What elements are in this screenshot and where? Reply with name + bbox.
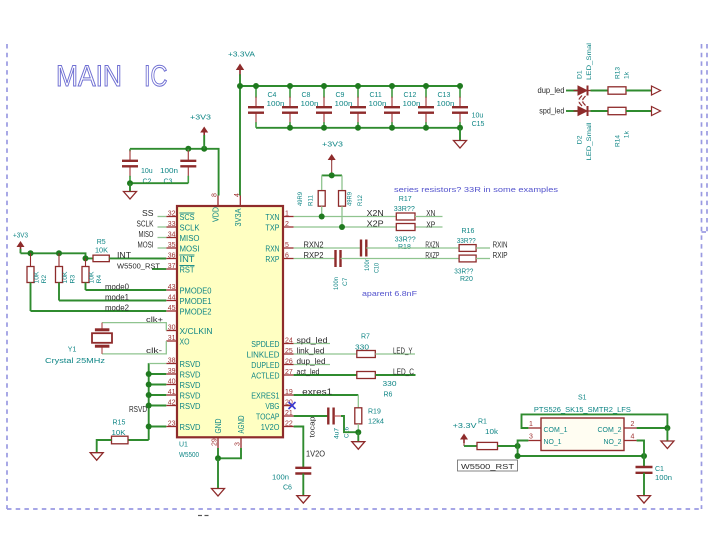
junction RSVD — [146, 371, 152, 377]
svg-text:R19: R19 — [368, 408, 381, 415]
svg-text:100n: 100n — [655, 475, 672, 482]
svg-text:10K: 10K — [62, 271, 69, 283]
pin 8 VDD (top) — [212, 193, 221, 222]
svg-text:RXZP: RXZP — [425, 251, 439, 260]
svg-text:GND: GND — [214, 418, 223, 433]
wire MOSI stub — [158, 247, 167, 249]
junction R3 top — [56, 250, 62, 256]
title text MAIN IC — [56, 60, 168, 93]
svg-text:35: 35 — [168, 242, 176, 249]
svg-text:6: 6 — [285, 253, 289, 260]
wire RSVD pin23 — [149, 426, 167, 428]
wire TXN row — [294, 216, 397, 218]
junction bottom rail C15 — [457, 125, 463, 131]
junction top rail C13 — [423, 83, 429, 89]
svg-text:Y1: Y1 — [68, 347, 77, 354]
svg-text:MISO: MISO — [139, 230, 154, 239]
svg-text:EXRES1: EXRES1 — [251, 391, 280, 400]
net label exres1 — [302, 387, 333, 396]
ground C2 C3 — [124, 192, 137, 200]
pin 42 RSVD — [166, 400, 200, 411]
pin 37 RST — [166, 263, 194, 274]
svg-text:IC: IC — [144, 60, 168, 93]
svg-text:ACTLED: ACTLED — [251, 371, 279, 380]
wire C1 to ground — [643, 473, 645, 496]
wire gnd stem — [357, 432, 359, 442]
resistor R5 10K — [93, 239, 109, 262]
net label W5500_RST (boxed) — [458, 460, 518, 471]
svg-text:1k: 1k — [624, 130, 631, 138]
resistor R12 49R9 — [339, 175, 365, 227]
pin 26 DUPLED — [251, 359, 293, 370]
wire COM_2 — [637, 427, 668, 429]
wire XP — [415, 226, 443, 228]
junction bottom rail C12 — [389, 125, 395, 131]
svg-text:4u7: 4u7 — [334, 428, 341, 439]
wire GND AGND — [218, 448, 241, 458]
wire SCLK stub — [158, 226, 167, 228]
junction RSVD — [146, 403, 152, 409]
net label LED_C — [393, 367, 414, 376]
wire RXIN — [476, 247, 490, 249]
svg-text:C7: C7 — [342, 277, 349, 286]
net label RXZN — [425, 240, 439, 249]
svg-text:X/CLKIN: X/CLKIN — [180, 327, 213, 336]
svg-text:RSVD: RSVD — [129, 405, 147, 414]
wire C6 to ground — [302, 474, 304, 496]
pin 3 NO_1 — [528, 434, 561, 446]
svg-text:PTS526_SK15_SMTR2_LFS: PTS526_SK15_SMTR2_LFS — [534, 407, 631, 414]
pin 22 1V2O — [261, 421, 294, 432]
svg-text:S1: S1 — [578, 395, 587, 402]
svg-text:4: 4 — [631, 434, 635, 441]
pin 40 RSVD — [166, 379, 200, 390]
svg-text:R1: R1 — [478, 418, 487, 425]
pin 41 RSVD — [166, 389, 200, 400]
resistor R6 330 — [357, 372, 397, 399]
net label X2N — [367, 209, 384, 218]
svg-text:RXIP: RXIP — [493, 251, 508, 260]
svg-text:DUPLED: DUPLED — [251, 361, 279, 370]
capacitor C16 4u7 — [328, 408, 350, 440]
junction RSVD — [146, 392, 152, 398]
svg-text:1: 1 — [285, 211, 289, 218]
wire LED_Y — [375, 353, 415, 355]
svg-text:22: 22 — [285, 421, 293, 428]
pin 39 RSVD — [166, 368, 200, 379]
svg-text:COM_1: COM_1 — [544, 425, 568, 434]
svg-text:100n: 100n — [160, 168, 178, 175]
svg-text:3V3A: 3V3A — [234, 208, 243, 227]
wire RXP2 row — [294, 258, 336, 260]
wire C15 to ground — [459, 128, 461, 141]
resistor R7 330 — [355, 334, 375, 358]
capacitor C4 — [248, 86, 285, 128]
svg-text:VDD: VDD — [212, 207, 221, 222]
pin 1 COM_1 — [528, 421, 567, 434]
svg-text:10u: 10u — [141, 168, 153, 175]
svg-text:W5500_RST: W5500_RST — [117, 261, 160, 270]
capacitor C3 — [160, 149, 196, 186]
net label XP — [426, 220, 435, 229]
svg-text:R5: R5 — [97, 239, 106, 246]
svg-text:37: 37 — [168, 263, 176, 270]
net label RXZP — [425, 251, 439, 260]
wire +3V3 rail — [21, 253, 94, 258]
svg-text:C2: C2 — [143, 178, 152, 185]
junction COM gnd — [664, 425, 670, 431]
capacitor C13 — [418, 86, 455, 128]
pin 33 SCLK — [166, 221, 200, 232]
wire LED_C — [375, 374, 415, 376]
pin 34 MISO — [166, 232, 199, 243]
svg-text:45: 45 — [168, 305, 176, 312]
pin 29 GND (bottom) — [212, 418, 224, 448]
svg-text:mode1: mode1 — [105, 293, 130, 302]
svg-text:SPDLED: SPDLED — [251, 340, 279, 349]
resistor R19 12k4 — [355, 408, 384, 432]
svg-text:LINKLED: LINKLED — [247, 350, 280, 359]
svg-text:RSVD: RSVD — [180, 423, 201, 432]
wire COM loop — [522, 414, 668, 428]
pin 1 TXN — [265, 211, 293, 222]
wire dup_led — [294, 364, 330, 366]
ground U1 — [212, 489, 225, 497]
junction top rail C15 — [457, 83, 463, 89]
svg-text:100n: 100n — [272, 474, 289, 481]
wire RXZN — [366, 247, 459, 249]
svg-text:MAIN: MAIN — [56, 60, 122, 93]
resistor R14 1k — [608, 107, 631, 147]
pin 38 RSVD — [166, 358, 200, 369]
wire SS stub — [158, 216, 167, 218]
net label MOSI — [138, 240, 154, 249]
junction TXP — [339, 224, 345, 230]
svg-text:LED_Smal: LED_Smal — [586, 42, 593, 80]
junction reset node — [515, 443, 521, 449]
svg-text:26: 26 — [285, 359, 293, 366]
svg-text:SS: SS — [142, 209, 154, 218]
svg-text:TXP: TXP — [265, 223, 279, 232]
wire R15 to ground — [97, 440, 112, 453]
net label mode1 — [105, 293, 130, 302]
svg-text:RST: RST — [180, 265, 195, 274]
junction R2 top — [28, 250, 34, 256]
svg-text:D2: D2 — [577, 135, 584, 144]
svg-text:SCS: SCS — [180, 213, 195, 222]
svg-text:100n: 100n — [333, 277, 340, 290]
svg-text:R7: R7 — [361, 334, 370, 341]
net label 1V2O — [306, 450, 325, 459]
svg-text:10u: 10u — [472, 113, 484, 120]
LED D2 LED_Small — [574, 101, 596, 160]
wire +3V3 stem — [203, 135, 205, 149]
note: series resistors comment — [394, 185, 558, 194]
LED D1 LED_Small — [574, 42, 596, 100]
crystal Y1 25MHz — [45, 323, 112, 365]
svg-text:8: 8 — [212, 193, 219, 197]
wire mode1 — [59, 300, 166, 302]
power +3.3VA — [228, 52, 255, 76]
svg-text:R6: R6 — [384, 392, 393, 399]
capacitor C6 100n — [272, 468, 311, 492]
pin 23 RSVD — [166, 421, 200, 432]
svg-text:33R??: 33R?? — [457, 238, 476, 245]
net label clk- — [146, 346, 163, 355]
wire 1V2O — [294, 427, 304, 468]
junction GND — [215, 455, 221, 461]
page mark — [198, 515, 209, 517]
junction RSVD — [146, 382, 152, 388]
wire spd_led to D2 — [566, 110, 578, 112]
svg-text:31: 31 — [168, 335, 176, 342]
svg-text:+3.3VA: +3.3VA — [228, 52, 255, 59]
capacitor C1 100n — [636, 466, 673, 482]
svg-text:19: 19 — [285, 389, 293, 396]
arrow dup out — [652, 86, 661, 95]
wire D1 to R13 — [591, 90, 609, 92]
IC U1 W5500 body — [177, 206, 283, 437]
svg-text:R13: R13 — [615, 67, 622, 79]
svg-text:C1: C1 — [655, 466, 664, 473]
ground cap bank — [454, 141, 467, 149]
pin 36 INT — [166, 253, 194, 264]
wire W5500_RST row — [518, 446, 644, 456]
junction pullup rail — [329, 172, 335, 178]
wire spd_led — [294, 343, 330, 345]
svg-text:INT: INT — [117, 251, 131, 260]
svg-text:aparent 6.8nF: aparent 6.8nF — [362, 289, 418, 298]
svg-text:+3.3V: +3.3V — [453, 423, 477, 430]
svg-text:PMODE2: PMODE2 — [180, 307, 213, 316]
ground C6 — [297, 496, 310, 504]
wire RXN2 row — [294, 247, 361, 249]
svg-text:43: 43 — [168, 284, 176, 291]
wire exres1 — [294, 394, 359, 396]
wire RXZP — [341, 258, 460, 260]
svg-text:AGND: AGND — [237, 415, 246, 433]
switch S1 body — [541, 418, 624, 451]
svg-text:25: 25 — [285, 348, 293, 355]
svg-text:COM_2: COM_2 — [598, 425, 622, 434]
svg-text:clk-: clk- — [146, 346, 163, 355]
svg-text:10K: 10K — [34, 271, 41, 283]
junction C3 top — [185, 146, 191, 152]
svg-text:NO_2: NO_2 — [604, 437, 622, 446]
svg-text:RXZN: RXZN — [425, 240, 439, 249]
wire C16 to ground node — [341, 416, 358, 432]
svg-text:mode0: mode0 — [105, 282, 130, 291]
capacitor C8 — [282, 86, 319, 128]
svg-text:RSVD: RSVD — [180, 370, 201, 379]
wire pullup rail — [322, 174, 342, 176]
wire mode2 — [31, 310, 167, 312]
net label mode0 — [105, 282, 130, 291]
net label RXP2 — [304, 251, 325, 260]
wire COM gnd stem — [666, 428, 668, 441]
power +3.3V (reset) — [453, 423, 477, 446]
svg-text:1V2O: 1V2O — [261, 423, 280, 432]
svg-text:100n: 100n — [335, 101, 353, 108]
svg-text:R14: R14 — [615, 135, 622, 147]
junction C1 node — [641, 453, 647, 459]
svg-text:R17: R17 — [399, 196, 412, 203]
capacitor C10 100n — [361, 240, 381, 274]
pin 20 VBG — [265, 400, 293, 411]
svg-text:clk+: clk+ — [146, 315, 164, 324]
resistor R16 33R — [457, 228, 476, 252]
net label tocap — [310, 416, 317, 437]
wire D2 to R14 — [591, 110, 609, 112]
svg-text:RXIN: RXIN — [493, 240, 508, 249]
pin 44 PMODE1 — [166, 295, 212, 306]
U1 reference — [179, 442, 199, 460]
wire W5500_RST stub — [152, 268, 166, 270]
svg-text:RXP: RXP — [265, 255, 279, 264]
svg-text:30: 30 — [168, 325, 176, 332]
wire to R1 — [464, 445, 477, 447]
svg-text:dup_led: dup_led — [297, 357, 326, 366]
junction RST label node — [515, 453, 521, 459]
net label LED_Y — [393, 346, 413, 355]
svg-text:+3V3: +3V3 — [13, 233, 28, 240]
pin 35 MOSI — [166, 242, 199, 253]
svg-text:XO: XO — [180, 337, 190, 346]
wire R13 to arrow — [626, 90, 652, 92]
junction top rail at +3.3VA — [237, 83, 243, 89]
pin 2 COM_2 — [598, 421, 637, 434]
svg-text:PMODE0: PMODE0 — [180, 286, 213, 295]
net label RSVD — [129, 405, 147, 414]
svg-text:2: 2 — [631, 421, 635, 428]
junction +3V3 tap — [201, 146, 207, 152]
svg-text:33R??: 33R?? — [395, 237, 416, 244]
power +3V3 (TX pullups) — [322, 142, 343, 176]
resistor R20 33R — [454, 255, 476, 283]
net label MISO — [139, 230, 154, 239]
svg-text:33: 33 — [168, 221, 176, 228]
net label dup_led (top right) — [538, 86, 565, 95]
junction C2 bottom — [127, 180, 133, 186]
resistor R2 10K — [27, 253, 48, 311]
resistor R13 1k — [608, 67, 631, 94]
pin 6 RXP — [265, 253, 293, 264]
svg-text:tocap: tocap — [310, 416, 317, 437]
net label XN — [426, 209, 435, 218]
junction RSVD pin23 — [146, 424, 152, 430]
net label link_led — [297, 346, 325, 355]
wire R14 to arrow — [626, 110, 652, 112]
pin 19 EXRES1 — [251, 389, 293, 400]
svg-text:PMODE1: PMODE1 — [180, 297, 213, 306]
pin 31 XO — [166, 335, 189, 346]
wire R15 right — [128, 439, 149, 441]
svg-text:27: 27 — [285, 369, 293, 376]
wire dup_led to D1 — [566, 90, 578, 92]
wire MISO stub — [158, 237, 167, 239]
junction top rail C4 — [253, 83, 259, 89]
svg-text:W5500: W5500 — [179, 452, 199, 459]
junction tocap gnd — [355, 429, 361, 435]
svg-text:C10: C10 — [374, 263, 381, 273]
svg-text:49R9: 49R9 — [347, 192, 354, 206]
junction R4/R5 tap — [83, 255, 89, 261]
arrow spd out — [652, 107, 661, 116]
svg-text:RXN: RXN — [265, 244, 279, 253]
note: apparent capacitance comment — [362, 289, 418, 298]
net label clk+ — [146, 315, 164, 324]
pin 25 LINKLED — [247, 348, 294, 359]
junction bottom rail C11 — [355, 125, 361, 131]
wire clk- loop — [102, 341, 166, 354]
svg-text:MOSI: MOSI — [138, 240, 154, 249]
wire R1 to node — [498, 445, 518, 447]
svg-text:C15: C15 — [472, 121, 485, 128]
wire clk+ loop — [102, 323, 166, 331]
net label spd_led — [297, 336, 328, 345]
wire XN — [415, 216, 443, 218]
wire RXIP — [476, 258, 490, 260]
svg-text:10K: 10K — [95, 248, 108, 255]
svg-text:RSVD: RSVD — [180, 402, 201, 411]
svg-text:LED_Small: LED_Small — [586, 122, 593, 161]
svg-text:SCLK: SCLK — [180, 223, 201, 232]
svg-text:23: 23 — [168, 421, 176, 428]
svg-text:32: 32 — [168, 211, 176, 218]
resistor R4 10K — [82, 258, 103, 290]
svg-text:LED_C: LED_C — [393, 367, 414, 376]
capacitor C15 — [452, 86, 485, 128]
svg-text:RXP2: RXP2 — [304, 251, 325, 260]
svg-text:RSVD: RSVD — [180, 391, 201, 400]
resistor R15 10K — [112, 420, 129, 444]
svg-text:Crystal 25MHz: Crystal 25MHz — [45, 358, 106, 365]
svg-text:XN: XN — [426, 209, 435, 218]
svg-text:33R??: 33R?? — [454, 269, 473, 276]
resistor R11 49R9 — [297, 175, 325, 216]
svg-text:dup_led: dup_led — [538, 86, 565, 95]
svg-text:C13: C13 — [438, 92, 451, 99]
wire tocap — [294, 415, 329, 417]
svg-text:4: 4 — [234, 193, 241, 197]
wire GND stem — [217, 458, 219, 488]
svg-text:C4: C4 — [268, 92, 277, 99]
svg-text:act_led: act_led — [297, 367, 320, 376]
svg-text:C11: C11 — [370, 92, 382, 99]
junction top rail C12 — [389, 83, 395, 89]
junction bottom rail C8 — [287, 125, 293, 131]
net label W5500_RST — [117, 261, 160, 270]
pin 43 PMODE0 — [166, 284, 212, 295]
wire INT — [109, 257, 166, 259]
resistor R3 10K — [56, 253, 77, 300]
net label RXIP — [493, 251, 508, 260]
net label spd_led (top right) — [539, 107, 564, 116]
svg-text:12k4: 12k4 — [368, 418, 384, 425]
svg-text:21: 21 — [285, 410, 293, 417]
wire cap bank top rail — [240, 85, 460, 87]
wire cap bank bottom rail — [256, 127, 460, 129]
pin 2 TXP — [265, 221, 293, 232]
net label INT — [117, 251, 131, 260]
svg-text:1V2O: 1V2O — [306, 450, 325, 459]
capacitor C9 — [316, 86, 353, 128]
pin 21 TOCAP — [256, 410, 294, 421]
svg-text:100n: 100n — [369, 101, 387, 108]
svg-text:D1: D1 — [577, 70, 584, 79]
svg-text:series resistors? 33R in some: series resistors? 33R in some examples — [394, 185, 558, 194]
net label SS — [142, 209, 154, 218]
